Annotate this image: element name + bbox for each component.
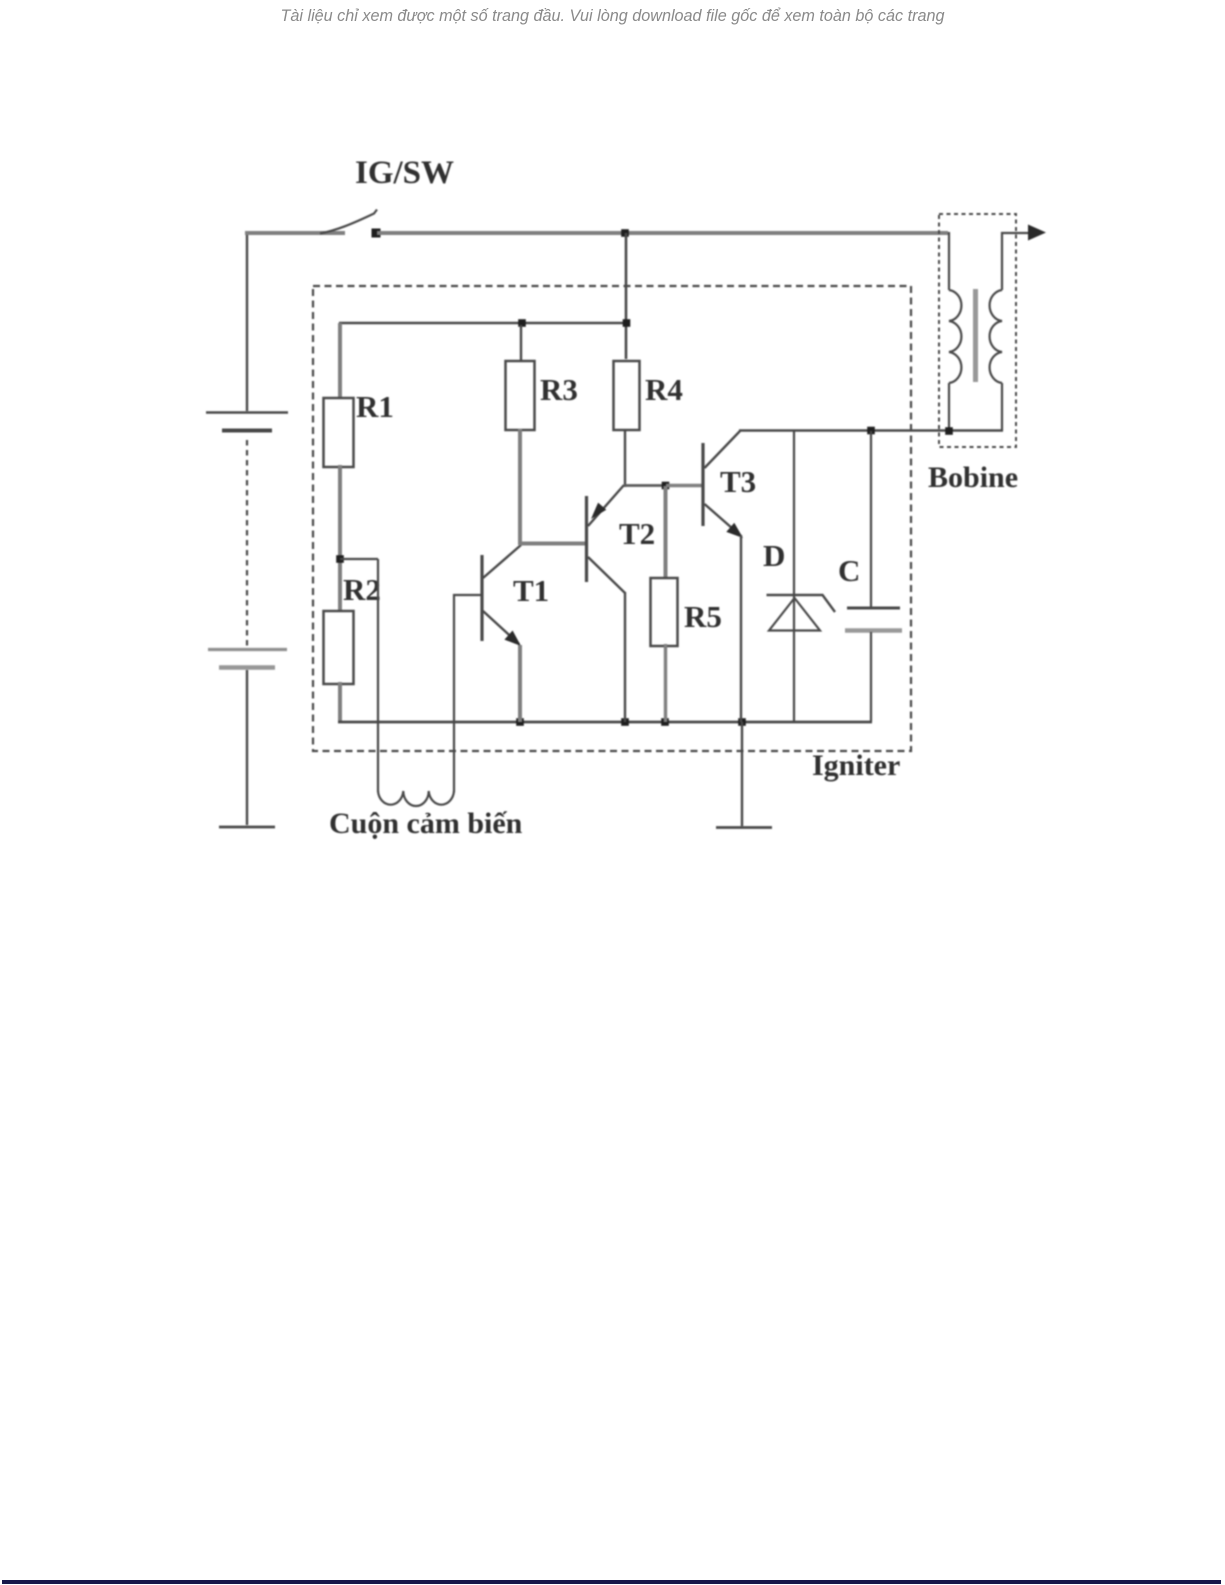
junction: R4 branch on main rail [621,229,629,237]
transistor T1 emitter [483,611,519,644]
wire: secondary bottom lead [1001,383,1003,431]
wire: R3 top lead [520,325,522,361]
svg-text:T3: T3 [720,464,756,499]
junction: T2 collector at rail [621,718,629,726]
svg-text:Cuộn cảm biến: Cuộn cảm biến [329,807,523,840]
resistor R2 [324,611,354,684]
battery B1 negative plate [222,429,272,433]
junction: capacitor tap [867,427,875,435]
wire: battery mid link dashed [246,440,248,647]
capacitor C top plate [847,607,900,610]
svg-text:T1: T1 [513,573,549,608]
junction: switch contact [372,229,381,238]
bottom bar [2,1580,1221,1584]
svg-text:R5: R5 [684,599,722,634]
transistor T2 emitter arrow [591,503,606,519]
battery B2 negative plate [219,665,275,670]
junction: R5 at rail [661,718,669,726]
ground igniter [716,826,772,829]
wire: capacitor C top lead [870,431,872,607]
wire: T2 collector lead [624,592,626,722]
resistor R3 [506,361,535,430]
wire: T2 emitter to R5 tap [624,484,666,487]
wire: primary bottom lead [948,383,950,431]
output arrow [1028,225,1046,241]
capacitor C bottom plate [845,628,902,633]
transistor T2 base bar [585,496,588,582]
document caption [0,7,1225,26]
wire: R2 bottom lead [338,682,342,722]
wire: internal supply rail [339,322,627,325]
wire: R4 bottom lead [624,429,626,487]
wire: R1 top lead [338,323,342,400]
wire: primary top lead [948,232,950,290]
wire: ground rail [338,721,872,724]
diode D cathode bar [767,595,836,612]
bobine box dashed [939,214,1016,447]
wire: sensor coil right lead [454,595,481,792]
wire: R5 top lead [664,486,668,580]
wire: secondary top lead [1002,233,1029,290]
wire: T1 collector to T2 base [519,542,586,546]
wire: R3 bottom lead [518,429,522,545]
wire: T3 emitter to ground [741,722,743,826]
bobine secondary winding [990,290,1002,383]
wire: capacitor C bottom lead [870,632,872,722]
svg-text:IG/SW: IG/SW [355,155,454,191]
transistor T2 emitter [588,485,624,526]
wire: sensor coil left lead [377,559,379,792]
svg-text:T2: T2 [619,516,655,551]
wire: diode D bottom lead [793,598,795,722]
transistor T3 collector [705,431,741,468]
wire: battery negative lead [246,670,248,825]
junction: R4 tap [623,319,631,327]
svg-text:D: D [763,538,785,573]
wire: main positive rail [377,231,948,235]
diode D triangle [769,598,820,631]
wire: top feed from battery [245,231,345,235]
transistor T3 emitter arrow [726,523,743,538]
battery B1 positive plate [206,411,288,414]
transistor T3 base bar [701,443,704,526]
resistor R4 [614,361,640,430]
wire: T1 emitter lead [518,645,522,722]
svg-text:R4: R4 [645,372,683,407]
transistor T1 base bar [480,555,483,641]
wire: R5 bottom lead [664,644,667,722]
transistor T3 emitter [705,504,742,536]
svg-text:C: C [838,553,860,588]
igniter box dashed [313,286,911,751]
junction: R3 tap [518,319,526,327]
svg-text:R3: R3 [540,372,578,407]
wire: diode D top lead [793,431,795,598]
bobine primary winding [949,290,961,383]
wire: R4 branch drop [625,233,628,359]
transistor T1 emitter arrow [504,631,521,647]
wire: coil tap horizontal [340,558,378,560]
junction: R5 tap [662,482,670,490]
svg-text:Bobine: Bobine [928,461,1018,494]
transistor T2 collector [588,557,625,593]
wire: T3 collector line to bobine [739,429,1003,431]
transformer core [973,289,978,382]
junction: T1 emitter at rail [516,718,524,726]
wire: R1-R2 link [338,465,342,613]
svg-text:R2: R2 [343,572,381,607]
sensor coil L [378,791,454,806]
wire: battery positive lead [246,233,248,411]
junction: primary bottom [945,427,953,435]
battery B2 positive plate [208,648,287,651]
junction: T3 emitter at rail [738,718,746,726]
switch IG/SW blade [320,210,377,234]
junction: sensor coil tap [336,555,344,563]
resistor R1 [324,398,354,467]
resistor R5 [651,578,678,646]
svg-text:R1: R1 [356,389,394,424]
wire: R5 tap to T3 base [666,484,702,488]
wire: T3 emitter lead [740,535,742,722]
svg-text:Igniter: Igniter [812,749,900,782]
transistor T1 collector [483,545,521,578]
ground battery [219,826,275,829]
